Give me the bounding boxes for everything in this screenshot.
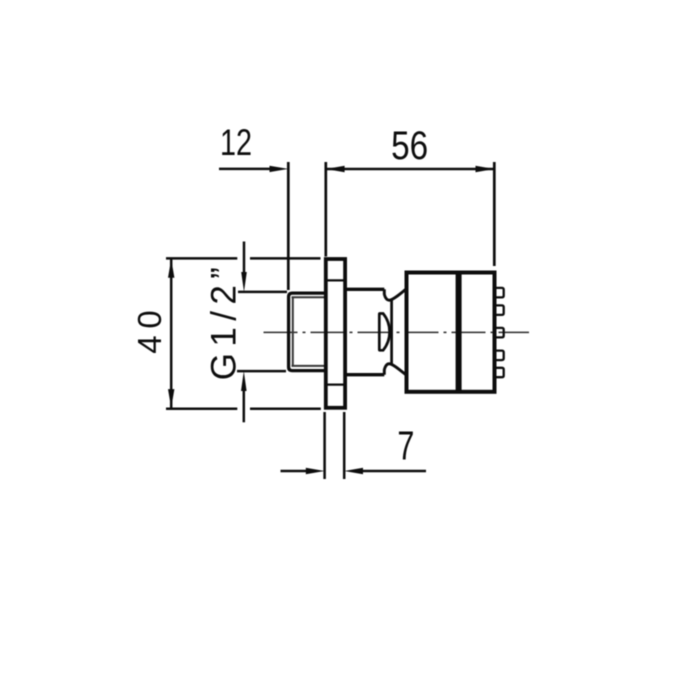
dim 7 right arrow <box>344 468 363 474</box>
G1/2 top reference line <box>238 291 287 294</box>
nozzle 1 <box>495 288 504 298</box>
nozzle 4 <box>495 351 504 361</box>
dim 12 line <box>219 168 270 171</box>
dim 40 extension bottom <box>166 407 321 410</box>
head body <box>407 273 495 392</box>
dim 12 arrow <box>270 166 289 172</box>
washer lens <box>379 314 389 351</box>
nozzle 2 <box>495 305 504 315</box>
dim 40 top arrow <box>168 259 174 278</box>
G1/2 leader bottom arrow <box>241 371 247 391</box>
dim 12 extension line left <box>287 162 290 290</box>
ball joint bottom curve <box>384 364 405 375</box>
G1/2 bottom reference line <box>237 370 286 373</box>
dim 40 line <box>170 259 173 408</box>
svg-text:7: 7 <box>397 423 414 469</box>
dim 56 line <box>326 168 495 171</box>
dim 7 right line <box>363 470 426 473</box>
neck end caps <box>383 289 386 374</box>
nozzle 5 <box>495 368 504 377</box>
ball joint top curve <box>384 289 405 300</box>
centerline <box>264 331 530 333</box>
dim 40 bottom arrow <box>168 389 174 408</box>
dim 7 left arrow <box>306 468 325 474</box>
flange (wall plate) <box>326 259 345 408</box>
dim 40 extension top <box>166 257 321 260</box>
svg-text:40: 40 <box>131 310 168 354</box>
dim 56 left arrow (outside of 12) <box>326 166 345 172</box>
G1/2 leader top arrow <box>241 272 247 292</box>
thread chamfer line <box>292 297 294 367</box>
neck cylinder <box>347 289 385 374</box>
head divider <box>456 273 462 392</box>
dim 56 right arrow <box>476 166 495 172</box>
thread minor diameter lines <box>292 297 326 366</box>
G1/2 leader top <box>243 242 246 273</box>
svg-text:56: 56 <box>391 124 428 168</box>
ball joint vertical edge <box>390 300 393 364</box>
dim 56 extension line right <box>493 162 496 266</box>
svg-text:G1/2”: G1/2” <box>205 267 244 380</box>
svg-text:12: 12 <box>220 122 252 163</box>
G1/2 leader bottom <box>243 391 246 422</box>
flange inner lines <box>326 280 345 384</box>
nozzle 3 <box>495 328 504 338</box>
thread G1/2 outer profile <box>289 293 326 371</box>
dim 7 extension lines <box>325 412 345 479</box>
dim 12/56 shared extension line <box>324 162 327 257</box>
dim 7 left line <box>281 470 307 473</box>
